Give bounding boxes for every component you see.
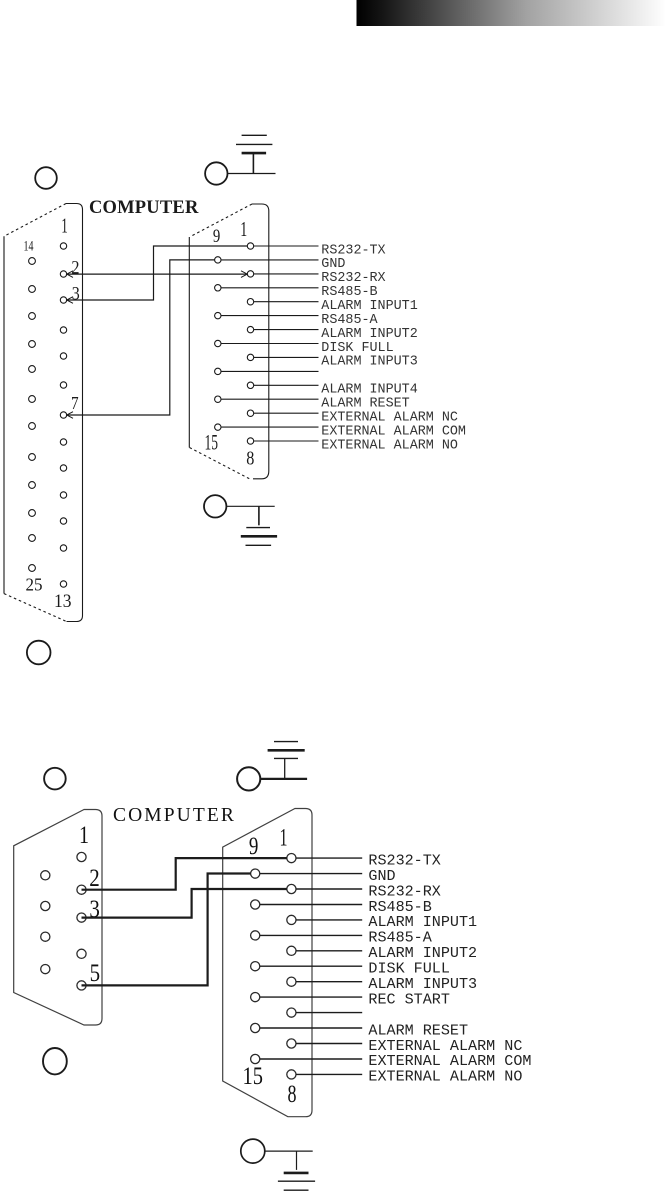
J1 pin 15 (215, 424, 221, 430)
mounting hole circle (top-left of DB9) (44, 768, 66, 790)
svg-text:13: 13 (54, 592, 72, 612)
ground symbol (bottom of top diagram) : circle (204, 495, 226, 517)
DB25 pin 25 (29, 565, 36, 572)
DB25 pin 22 (29, 482, 36, 489)
ground symbol (bottom) : bar 2 (241, 535, 277, 538)
J2 pin 8 (287, 1070, 296, 1079)
svg-text:1: 1 (61, 213, 68, 237)
DB25 pin 7 (60, 412, 66, 418)
ground symbol : stem (284, 758, 286, 779)
svg-text:8: 8 (246, 448, 254, 470)
DB25 pin 8 (60, 439, 66, 445)
J2 pin 3 (287, 915, 296, 924)
wire J2 row 3 to label (296, 888, 362, 890)
J1 pin 11 (215, 312, 221, 318)
svg-text:EXTERNAL ALARM NC: EXTERNAL ALARM NC (321, 411, 458, 426)
DB25 pin 9 (60, 465, 66, 471)
wire J2 row 7 to label (296, 950, 362, 952)
ground symbol (top) : stem (252, 153, 254, 173)
wire J2 row 14 to label (260, 1058, 362, 1060)
wire J1 row 12 to label (221, 398, 319, 400)
J1 pin 10 (215, 285, 221, 291)
ground symbol (bottom) : stem (296, 1151, 298, 1170)
ground symbol (top of bottom diagram) : circle (237, 767, 260, 790)
DB9 pin 6 (41, 871, 50, 880)
wire J1 row 6 to label (221, 315, 319, 317)
ground symbol (bottom) : stem (258, 506, 260, 525)
svg-text:5: 5 (90, 958, 101, 987)
connector P1 DB25 outline: dashed bottom bevel (4, 594, 67, 622)
svg-text:7: 7 (71, 393, 79, 413)
connector J1 15-pin outline: dashed top bevel (191, 204, 253, 237)
DB25 pin 14 (29, 258, 36, 265)
DB9 pin 9 (41, 965, 50, 974)
DB9 pin 8 (41, 932, 50, 941)
svg-text:1: 1 (79, 820, 89, 849)
wire J2 row 2 to label (260, 873, 362, 875)
ground symbol (bottom) : bar 3 (284, 1189, 309, 1191)
ground symbol (bottom of page) : circle (241, 1139, 265, 1163)
svg-text:RS232-RX: RS232-RX (321, 271, 385, 286)
J2 pin 7 (287, 1039, 296, 1048)
ground symbol : thick wire (261, 778, 308, 780)
J2 pin 15 (251, 1054, 260, 1063)
wire J1 row 4 to label (221, 287, 319, 289)
svg-text:EXTERNAL ALARM NO: EXTERNAL ALARM NO (368, 1068, 522, 1086)
svg-text:2: 2 (89, 863, 100, 892)
ground symbol (top) : wire (228, 173, 276, 175)
J2 pin 10 (251, 900, 260, 909)
wire J1 row 5 to label (254, 301, 319, 303)
J2 pin 4 (287, 946, 296, 955)
ground symbol (bottom) : bar 3 (246, 544, 272, 546)
DB25 pin 18 (29, 366, 36, 373)
DB25 pin 16 (29, 313, 36, 320)
DB25 pin 24 (29, 535, 36, 542)
J2 pin 9 (251, 869, 260, 878)
svg-text:COMPUTER: COMPUTER (113, 805, 236, 826)
connector P2 DB9 outline (14, 810, 102, 1026)
svg-text:ALARM INPUT2: ALARM INPUT2 (321, 327, 417, 342)
wire DB25 pin2 to J1 pin2 (RS232-RX) (67, 273, 248, 275)
DB25 pin 4 (60, 327, 66, 333)
DB25 pin 15 (29, 286, 36, 293)
DB9 pin 1 (77, 852, 86, 861)
ground symbol (bottom) : bar 1 (246, 527, 270, 529)
header gradient bar (357, 0, 665, 26)
DB9 pin 5 (77, 981, 86, 990)
J2 pin 12 (251, 962, 260, 971)
ground symbol (top) : circle (205, 162, 227, 184)
J1 pin 2 (247, 271, 253, 277)
J2 pin 13 (251, 993, 260, 1002)
wire J2 row 15 to label (296, 1073, 362, 1075)
svg-text:1: 1 (240, 217, 247, 241)
ground symbol : bar 3 (274, 741, 298, 743)
wire J2 row 8 to label (260, 965, 362, 967)
DB25 pin 3 (60, 297, 66, 303)
wire DB25 pin3 to J1 pin1 (RS232-TX) (67, 246, 248, 300)
J1 pin 1 (247, 243, 253, 249)
svg-text:GND: GND (321, 257, 345, 272)
ground symbol (top) : bar 1 (242, 152, 267, 155)
connector J1 15-pin outline: dashed bottom bevel (190, 448, 250, 479)
mounting hole circle (bottom-left of DB9) (43, 1048, 67, 1074)
svg-text:ALARM RESET: ALARM RESET (321, 397, 409, 412)
connector P1 DB25 outline: left edge (3, 236, 5, 593)
connector P1 DB25 outline: dashed top bevel (4, 204, 66, 237)
arrowhead at DB25 pin7 (67, 412, 73, 419)
wire J1 row 3 to label (254, 273, 319, 275)
svg-text:9: 9 (213, 226, 220, 247)
J2 pin 2 (287, 884, 296, 893)
ground symbol (bottom) : wire (265, 1150, 313, 1152)
DB25 pin 19 (29, 396, 36, 403)
J2 pin 1 (287, 854, 296, 863)
wire J2 row 5 to label (296, 919, 362, 921)
wire J1 row 1 to label (254, 245, 319, 247)
svg-text:RS485-A: RS485-A (321, 313, 378, 328)
wire J1 row 14 to label (221, 426, 319, 428)
wire J2 row 9 to label (296, 981, 362, 983)
wire J1 row 10 to label (221, 370, 319, 372)
svg-text:ALARM INPUT3: ALARM INPUT3 (321, 355, 417, 370)
svg-text:9: 9 (249, 831, 259, 860)
svg-text:15: 15 (243, 1061, 264, 1090)
DB25 pin 13 (60, 581, 66, 587)
svg-text:ALARM INPUT4: ALARM INPUT4 (321, 383, 417, 398)
mounting hole circle (top-left of DB25) (35, 167, 57, 189)
DB25 pin 10 (60, 492, 66, 498)
DB25 pin 17 (29, 341, 36, 348)
J1 pin 13 (215, 368, 221, 374)
wire J1 row 13 to label (254, 412, 319, 414)
svg-text:2: 2 (71, 258, 79, 279)
J2 pin 11 (251, 931, 260, 940)
svg-text:15: 15 (204, 430, 218, 455)
wire J2 row 13 to label (296, 1043, 362, 1045)
wire J2 row 12 to label (260, 1027, 362, 1029)
ground symbol : bar 2 (268, 749, 305, 752)
ground symbol (bottom) : wire (227, 505, 275, 507)
ground symbol (bottom) : bar 1 (284, 1172, 309, 1175)
DB25 pin 5 (60, 353, 66, 359)
DB9 pin 2 (77, 885, 86, 894)
wire J1 row 7 to label (254, 329, 319, 331)
J1 pin 3 (247, 299, 253, 305)
J1 pin 6 (247, 382, 253, 388)
DB9 pin 3 (77, 913, 86, 922)
wire J2 row 1 to label (296, 857, 362, 859)
connector J1 15-pin outline: right edge (252, 204, 269, 479)
arrowhead at J1 pin2 (241, 271, 247, 278)
wire J1 row 2 to label (221, 259, 319, 261)
mounting hole circle (bottom-left of DB25) (27, 641, 51, 665)
svg-text:RS232-TX: RS232-TX (321, 243, 385, 258)
DB25 pin 12 (60, 545, 66, 551)
wire DB9 pin3 to J2 pin2 (RS232-RX) (82, 889, 287, 918)
DB25 pin 2 (60, 271, 66, 277)
svg-text:14: 14 (24, 238, 34, 254)
wire J1 row 9 to label (254, 356, 319, 358)
J1 pin 9 (215, 257, 221, 263)
connector J1 15-pin outline: left edge (188, 237, 190, 448)
J1 pin 4 (247, 326, 253, 332)
ground symbol (top) : bar 3 (242, 134, 267, 136)
DB25 pin 20 (29, 423, 36, 430)
ground symbol (bottom) : bar 2 (278, 1180, 315, 1182)
DB25 pin 11 (60, 518, 66, 524)
wire DB9 pin2 to J2 pin1 (RS232-TX) (82, 858, 287, 890)
svg-text:ALARM INPUT1: ALARM INPUT1 (321, 299, 417, 314)
wire J2 row 6 to label (260, 934, 362, 936)
svg-text:COMPUTER: COMPUTER (89, 198, 199, 218)
svg-text:8: 8 (288, 1079, 297, 1108)
wire J2 row 4 to label (260, 904, 362, 906)
DB9 pin 7 (41, 901, 50, 910)
ground symbol : bar 1 (274, 757, 298, 759)
wire J1 row 15 to label (254, 440, 319, 442)
ground symbol (top) : bar 2 (236, 143, 272, 145)
arrowhead at DB25 pin3 (67, 297, 73, 304)
wire J1 row 11 to label (254, 384, 319, 386)
wire J2 row 10 to label (260, 996, 362, 998)
svg-text:EXTERNAL ALARM COM: EXTERNAL ALARM COM (321, 424, 466, 439)
connector P1 DB25 outline: right edge (66, 204, 83, 622)
J2 pin 6 (287, 1008, 296, 1017)
svg-text:DISK FULL: DISK FULL (321, 341, 393, 356)
DB25 pin 1 (60, 243, 66, 249)
svg-text:3: 3 (72, 284, 80, 305)
arrowhead at DB25 pin2 (67, 271, 73, 278)
wire DB25 pin7 to J1 pin9 (GND) (67, 260, 215, 415)
J1 pin 12 (215, 340, 221, 346)
wire DB9 pin5 to J2 pin9 (GND) (82, 874, 251, 986)
wire J1 row 8 to label (221, 343, 319, 345)
J2 pin 5 (287, 977, 296, 986)
svg-text:1: 1 (280, 823, 288, 852)
wire J2 row 11 to label (296, 1012, 362, 1014)
svg-text:25: 25 (26, 575, 43, 595)
J1 pin 5 (247, 354, 253, 360)
DB25 pin 21 (29, 454, 36, 461)
J1 pin 8 (247, 438, 253, 444)
DB25 pin 6 (60, 382, 66, 388)
J1 pin 7 (247, 410, 253, 416)
DB9 pin 4 (77, 949, 86, 958)
svg-text:RS485-B: RS485-B (321, 285, 377, 300)
DB25 pin 23 (29, 510, 36, 517)
J2 pin 14 (251, 1023, 260, 1032)
J1 pin 14 (215, 396, 221, 402)
svg-text:EXTERNAL ALARM NO: EXTERNAL ALARM NO (321, 438, 458, 453)
svg-text:REC START: REC START (368, 990, 450, 1008)
connector J2 15-pin outline (223, 809, 312, 1117)
